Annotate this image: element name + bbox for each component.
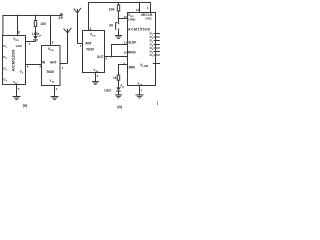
- LED D1 emission arrows: [37, 33, 39, 35]
- svg-text:LRN1: LRN1: [128, 17, 136, 21]
- svg-text:14: 14: [136, 8, 140, 12]
- node junction dot resistor R1: [35, 15, 37, 17]
- wire receiver VDD pin 2: [88, 3, 90, 31]
- LED D2 emission arrows: [120, 85, 122, 87]
- svg-text:SLEP: SLEP: [128, 40, 137, 44]
- svg-text:7: 7: [29, 42, 31, 46]
- svg-text:10: 10: [123, 51, 127, 55]
- svg-text:4: 4: [152, 45, 154, 48]
- svg-text:ANT: ANT: [85, 41, 92, 45]
- wire resistor R3 to LED2: [118, 80, 120, 87]
- wire decoder D5 output: [154, 47, 160, 49]
- LED D1: [33, 36, 38, 39]
- switch S0: [118, 23, 119, 24]
- svg-text:2: 2: [152, 38, 154, 40]
- svg-text:4: 4: [6, 79, 8, 82]
- svg-text:11: 11: [124, 41, 128, 45]
- svg-text:5: 5: [152, 49, 154, 51]
- wire top supply rail circuit (a): [3, 15, 61, 17]
- svg-text:RFIN: RFIN: [128, 50, 136, 54]
- svg-text:LOW: LOW: [143, 65, 149, 68]
- wire decoder VSS pin to ground: [139, 86, 141, 95]
- svg-text:(a): (a): [23, 104, 28, 108]
- svg-text:1: 1: [62, 66, 64, 70]
- wire LED1 cathode to encoder LED pin 7: [26, 41, 36, 43]
- svg-text:2: 2: [6, 58, 8, 60]
- svg-text:13: 13: [124, 15, 128, 19]
- ground decoder: [136, 95, 144, 98]
- svg-text:LED: LED: [16, 44, 23, 48]
- wire decoder D6 output: [154, 51, 160, 53]
- svg-text:T630: T630: [46, 70, 54, 74]
- wire decoder D4 output: [154, 44, 160, 46]
- svg-text:2: 2: [52, 40, 54, 44]
- wire encoder VSS pin 5 to ground: [16, 85, 18, 97]
- antenna TX: [67, 33, 69, 64]
- svg-text:LED: LED: [104, 88, 111, 92]
- resistor R2 10k: [117, 5, 119, 11]
- wire junction to decoder LRN1 pin 13: [119, 18, 128, 20]
- svg-text:ACM1230: ACM1230: [12, 49, 16, 71]
- wire encoder DOUT pin 6 to T630 IN pin 3: [26, 64, 42, 66]
- node junction dot T630 VDD: [50, 15, 52, 17]
- svg-text:1: 1: [152, 35, 154, 37]
- svg-text:(b): (b): [117, 105, 123, 109]
- svg-text:1: 1: [80, 44, 82, 48]
- svg-text:4: 4: [147, 6, 149, 10]
- wire receiver VSS pin to ground: [95, 73, 97, 82]
- svg-text:T630: T630: [86, 48, 94, 52]
- wire decoder LRN0 pin 2: [119, 65, 128, 76]
- svg-text:1: 1: [6, 47, 8, 49]
- wire resistor R1 top lead: [35, 16, 37, 21]
- svg-text:/: /: [157, 101, 159, 106]
- svg-text:DD: DD: [50, 50, 54, 52]
- wire decoder D2 output: [154, 36, 160, 38]
- ground encoder: [13, 97, 21, 100]
- wire decoder D3 output: [154, 40, 160, 42]
- svg-text:ANT: ANT: [50, 60, 57, 64]
- resistor R1 100: [34, 21, 36, 27]
- svg-text:DD: DD: [92, 35, 96, 37]
- wire T630 VSS pin 4 to ground: [54, 86, 56, 97]
- svg-text:DD: DD: [16, 40, 20, 42]
- svg-text:3: 3: [152, 42, 154, 44]
- svg-text:3: 3: [6, 69, 8, 71]
- encoder IC box ACM1230: [3, 36, 26, 85]
- wire T630 ANT pin 1: [60, 63, 68, 65]
- svg-text:3V: 3V: [58, 16, 63, 20]
- node junction dot 10k resistor top: [118, 2, 120, 4]
- svg-text:OUT: OUT: [97, 55, 104, 59]
- wire decoder D1 output: [154, 33, 160, 35]
- node junction dot LRN1: [118, 18, 120, 20]
- R630 receiver box: [83, 31, 105, 73]
- LED D2: [116, 87, 121, 90]
- svg-text:LRN0: LRN0: [127, 65, 136, 69]
- svg-text:1k: 1k: [113, 76, 117, 80]
- svg-text:2: 2: [90, 27, 92, 31]
- svg-text:4: 4: [56, 87, 58, 91]
- svg-text:LED: LED: [32, 32, 39, 36]
- svg-text:ACM1550D: ACM1550D: [128, 27, 151, 31]
- wire decoder pin 14: [139, 3, 141, 13]
- svg-text:0: 0: [22, 72, 24, 74]
- ground switch S0: [115, 36, 122, 39]
- wire top supply rail circuit (b): [89, 3, 151, 31]
- ground T630: [51, 97, 59, 100]
- wire resistor R2 top lead: [118, 3, 120, 6]
- svg-text:5: 5: [18, 87, 20, 91]
- wire RX antenna to receiver ANT pin 1: [78, 43, 83, 45]
- ground receiver: [92, 82, 99, 85]
- svg-text:3: 3: [105, 57, 107, 61]
- svg-text:100: 100: [40, 22, 46, 26]
- node junction dot OUT: [111, 56, 113, 58]
- decoder IC box ACM1550D: [128, 13, 156, 86]
- ground LED D2: [115, 95, 122, 98]
- wire resistor R1 bottom lead to LED1: [35, 27, 37, 37]
- svg-text:OSC: OSC: [145, 17, 152, 21]
- svg-text:S0: S0: [109, 23, 113, 27]
- svg-text:SS: SS: [52, 81, 55, 83]
- svg-text:6: 6: [152, 53, 154, 55]
- resistor R3 1k: [117, 75, 119, 80]
- T630 transmitter box: [42, 46, 61, 86]
- svg-text:IN: IN: [42, 60, 46, 64]
- antenna RX: [77, 13, 79, 43]
- wire switch bottom to ground: [118, 29, 120, 35]
- svg-text:3: 3: [39, 65, 41, 69]
- wire decoder VLOW to right edge: [153, 63, 160, 65]
- wire resistor R2 bottom to junction: [118, 11, 120, 23]
- svg-text:5: 5: [97, 74, 99, 78]
- wire receiver OUT to decoder RFIN pin 10: [105, 56, 128, 58]
- wire OUT branch to decoder SLEP pin 11: [112, 45, 128, 57]
- wire left drop from rail to encoder box: [2, 16, 4, 36]
- wire decoder D7 output: [154, 54, 160, 56]
- wire pin 8 of encoder: [17, 16, 19, 36]
- node junction dot decoder pin 14: [139, 2, 141, 4]
- svg-text:8: 8: [18, 30, 20, 34]
- wire T630 VDD pin 2: [50, 16, 52, 46]
- svg-text:7: 7: [140, 88, 142, 92]
- node junction dot pin8: [17, 15, 19, 17]
- svg-text:7: 7: [152, 56, 154, 58]
- svg-text:10k: 10k: [109, 7, 115, 11]
- power terminal 3V: [60, 14, 62, 16]
